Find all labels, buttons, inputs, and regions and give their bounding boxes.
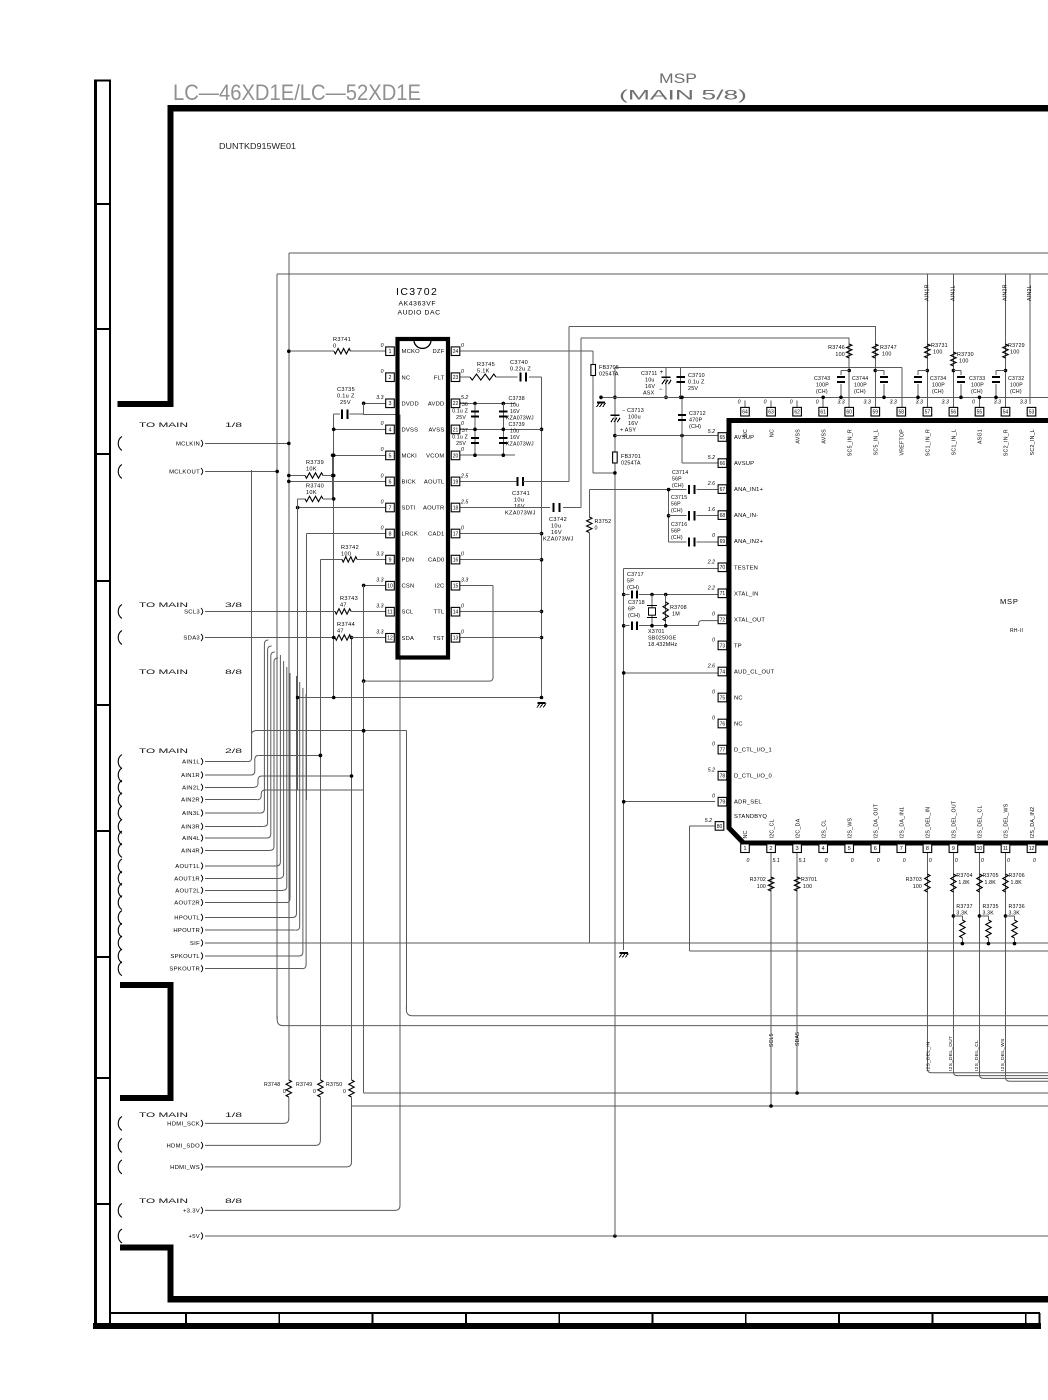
- svg-text:10K: 10K: [306, 467, 317, 473]
- svg-text:(MAIN 5/8): (MAIN 5/8): [619, 88, 747, 103]
- svg-text:(CH): (CH): [932, 389, 944, 395]
- svg-text:SPKOUTL: SPKOUTL: [170, 954, 200, 960]
- svg-text:8/8: 8/8: [225, 669, 243, 676]
- svg-text:(CH): (CH): [689, 424, 701, 430]
- svg-text:C3739: C3739: [509, 422, 525, 428]
- svg-text:19: 19: [453, 479, 459, 485]
- svg-text:I2S_DA_IN1: I2S_DA_IN1: [900, 807, 906, 839]
- svg-text:0: 0: [825, 858, 828, 864]
- svg-text:AIN2L: AIN2L: [1027, 285, 1033, 301]
- svg-text:R3701: R3701: [801, 877, 817, 883]
- svg-text:5: 5: [848, 846, 851, 852]
- svg-text:NC: NC: [402, 375, 411, 381]
- svg-text:XTAL_IN: XTAL_IN: [734, 591, 759, 597]
- svg-text:0.1u Z: 0.1u Z: [688, 380, 705, 386]
- svg-text:3.3: 3.3: [376, 630, 383, 636]
- svg-text:TESTEN: TESTEN: [734, 565, 758, 571]
- svg-text:I2S_DEL_OUT: I2S_DEL_OUT: [948, 1036, 954, 1071]
- svg-text:100: 100: [835, 352, 845, 358]
- svg-text:18: 18: [453, 505, 459, 511]
- svg-text:C3741: C3741: [512, 491, 530, 497]
- svg-text:12: 12: [387, 636, 393, 642]
- svg-text:TP: TP: [734, 643, 742, 649]
- svg-text:TO MAIN: TO MAIN: [139, 1112, 189, 1119]
- svg-text:0: 0: [461, 525, 464, 531]
- svg-text:I2C_DA: I2C_DA: [795, 818, 801, 838]
- svg-text:0: 0: [595, 526, 598, 532]
- svg-text:6: 6: [389, 479, 392, 485]
- svg-text:KZA073WJ: KZA073WJ: [506, 416, 534, 422]
- svg-text:16V: 16V: [510, 409, 520, 415]
- svg-text:1/8: 1/8: [225, 1112, 243, 1119]
- svg-text:1/8: 1/8: [225, 422, 243, 429]
- svg-text:I2S_DEL_WS: I2S_DEL_WS: [1004, 803, 1010, 838]
- svg-text:R3744: R3744: [337, 622, 355, 628]
- svg-text:− C3713: − C3713: [622, 408, 644, 414]
- svg-text:CAD1: CAD1: [428, 532, 444, 538]
- svg-text:AIN2R: AIN2R: [1003, 284, 1009, 301]
- svg-text:R3748: R3748: [264, 1082, 280, 1088]
- svg-text:3: 3: [389, 401, 392, 407]
- svg-text:0: 0: [461, 604, 464, 610]
- svg-text:70: 70: [720, 565, 726, 571]
- svg-text:LC—46XD1E/LC—52XD1E: LC—46XD1E/LC—52XD1E: [173, 80, 421, 105]
- svg-text:10u: 10u: [551, 524, 561, 530]
- svg-text:0: 0: [877, 858, 880, 864]
- svg-text:0: 0: [903, 858, 906, 864]
- svg-text:SDTI: SDTI: [402, 506, 416, 512]
- svg-text:AOUTR: AOUTR: [423, 506, 445, 512]
- svg-text:ASX: ASX: [643, 391, 655, 397]
- svg-text:−: −: [659, 387, 663, 393]
- svg-text:25V: 25V: [456, 441, 466, 447]
- svg-text:KZA073WJ: KZA073WJ: [505, 511, 536, 517]
- svg-text:MCLKOUT: MCLKOUT: [169, 469, 200, 475]
- svg-text:0: 0: [283, 1089, 286, 1095]
- svg-text:+5V: +5V: [188, 1234, 200, 1240]
- svg-text:0: 0: [712, 716, 715, 722]
- svg-text:I2S_DEL_WS: I2S_DEL_WS: [1000, 1038, 1006, 1071]
- svg-text:AK4363VF: AK4363VF: [399, 301, 437, 308]
- svg-text:C3740: C3740: [510, 360, 528, 366]
- svg-text:AVSS: AVSS: [821, 429, 827, 444]
- svg-text:SDA: SDA: [402, 636, 415, 642]
- svg-text:3.3: 3.3: [376, 395, 383, 401]
- svg-text:72: 72: [720, 617, 726, 623]
- svg-text:C3735: C3735: [337, 387, 355, 393]
- svg-text:0.1u Z: 0.1u Z: [452, 435, 468, 441]
- svg-text:SC5_IN_R: SC5_IN_R: [847, 429, 853, 456]
- svg-text:AOUT1R: AOUT1R: [174, 876, 200, 882]
- svg-text:SC1_IN_R: SC1_IN_R: [926, 429, 932, 456]
- svg-text:TTL: TTL: [433, 610, 445, 616]
- svg-text:0: 0: [712, 637, 715, 643]
- svg-text:3.3: 3.3: [864, 400, 871, 406]
- svg-text:25V: 25V: [688, 386, 698, 392]
- svg-text:63: 63: [768, 410, 774, 416]
- svg-text:66: 66: [720, 461, 726, 467]
- svg-text:0: 0: [712, 611, 715, 617]
- svg-text:1.8K: 1.8K: [958, 880, 970, 886]
- svg-text:R3750: R3750: [326, 1082, 342, 1088]
- svg-text:1.8K: 1.8K: [984, 880, 996, 886]
- svg-text:STANDBYQ: STANDBYQ: [734, 814, 767, 820]
- svg-text:57: 57: [925, 410, 931, 416]
- svg-text:59: 59: [872, 410, 878, 416]
- svg-text:0: 0: [461, 447, 464, 453]
- svg-text:I2S_DA_IN2: I2S_DA_IN2: [1030, 807, 1036, 839]
- svg-text:C3710: C3710: [688, 373, 705, 379]
- svg-text:I2S_DA_OUT: I2S_DA_OUT: [873, 803, 879, 838]
- svg-text:100: 100: [341, 552, 351, 558]
- svg-text:AIN1L: AIN1L: [950, 285, 956, 301]
- svg-text:AIN3R: AIN3R: [181, 824, 200, 830]
- svg-text:KZA073WJ: KZA073WJ: [543, 537, 574, 543]
- svg-text:R3706: R3706: [1009, 873, 1025, 879]
- svg-text:100P: 100P: [854, 383, 867, 389]
- svg-text:SB0250GE: SB0250GE: [648, 636, 677, 642]
- svg-text:10u: 10u: [510, 429, 519, 435]
- svg-text:2.5: 2.5: [460, 499, 468, 505]
- svg-text:3.3: 3.3: [890, 400, 897, 406]
- svg-text:TO MAIN: TO MAIN: [139, 669, 189, 676]
- svg-text:C3744: C3744: [852, 376, 868, 382]
- svg-text:5.2: 5.2: [461, 395, 468, 401]
- svg-text:(CH): (CH): [854, 389, 866, 395]
- svg-text:SC1_IN_L: SC1_IN_L: [952, 429, 958, 455]
- svg-text:R3737: R3737: [956, 904, 972, 910]
- svg-text:100P: 100P: [932, 383, 945, 389]
- svg-text:R3746: R3746: [828, 345, 845, 351]
- svg-text:5: 5: [389, 453, 392, 459]
- svg-text:I2S_CL: I2S_CL: [821, 819, 827, 838]
- svg-text:TO MAIN: TO MAIN: [139, 1198, 189, 1205]
- svg-text:R3704: R3704: [956, 873, 972, 879]
- svg-text:BICK: BICK: [402, 479, 417, 485]
- svg-text:16V: 16V: [628, 421, 638, 427]
- svg-text:3.3: 3.3: [1020, 400, 1027, 406]
- svg-text:78: 78: [720, 774, 726, 780]
- svg-text:69: 69: [720, 539, 726, 545]
- svg-text:0.1u Z: 0.1u Z: [337, 394, 355, 400]
- svg-text:3.3: 3.3: [376, 577, 383, 583]
- svg-text:10u: 10u: [645, 378, 655, 384]
- svg-text:73: 73: [720, 643, 726, 649]
- svg-text:22: 22: [453, 401, 459, 407]
- svg-text:R3730: R3730: [957, 352, 974, 358]
- svg-text:ADR_SEL: ADR_SEL: [734, 800, 762, 806]
- svg-text:C3733: C3733: [969, 376, 985, 382]
- svg-text:0.1u Z: 0.1u Z: [452, 409, 468, 415]
- svg-text:100: 100: [803, 884, 812, 890]
- svg-text:SC2_IN_L: SC2_IN_L: [1030, 429, 1036, 455]
- svg-text:2/8: 2/8: [225, 748, 243, 755]
- svg-text:ANA_IN1+: ANA_IN1+: [734, 487, 764, 493]
- svg-text:10u: 10u: [514, 498, 524, 504]
- svg-text:0: 0: [712, 742, 715, 748]
- svg-text:SIF: SIF: [190, 941, 200, 947]
- svg-text:60: 60: [846, 410, 852, 416]
- svg-text:R3742: R3742: [341, 545, 359, 551]
- svg-text:HPOUTR: HPOUTR: [173, 928, 200, 934]
- svg-text:MCLKIN: MCLKIN: [176, 441, 200, 447]
- svg-text:AIN1R: AIN1R: [924, 284, 930, 301]
- svg-text:(CH): (CH): [627, 585, 639, 591]
- svg-text:16V: 16V: [510, 435, 520, 441]
- svg-text:56P: 56P: [672, 477, 682, 483]
- svg-text:ANA_IN2+: ANA_IN2+: [734, 539, 764, 545]
- svg-text:1: 1: [389, 349, 392, 355]
- svg-text:5.2: 5.2: [708, 429, 715, 435]
- svg-text:3.3: 3.3: [461, 577, 468, 583]
- svg-text:5.2: 5.2: [705, 818, 712, 824]
- svg-text:0254TA: 0254TA: [621, 461, 641, 467]
- svg-text:R3735: R3735: [982, 904, 998, 910]
- svg-text:21: 21: [453, 427, 459, 433]
- svg-text:NC: NC: [734, 722, 743, 728]
- svg-text:0: 0: [747, 858, 750, 864]
- svg-text:AIN2R: AIN2R: [181, 798, 200, 804]
- svg-text:R3747: R3747: [880, 345, 897, 351]
- svg-text:0: 0: [333, 344, 336, 350]
- svg-text:FLT: FLT: [434, 375, 445, 381]
- svg-text:AUDIO DAC: AUDIO DAC: [398, 310, 441, 317]
- svg-text:65: 65: [720, 435, 726, 441]
- svg-text:14: 14: [453, 610, 459, 616]
- svg-text:AOUT2L: AOUT2L: [175, 888, 200, 894]
- svg-text:AIN4R: AIN4R: [181, 848, 200, 854]
- svg-text:VCOM: VCOM: [426, 453, 444, 459]
- svg-text:15: 15: [453, 584, 459, 590]
- svg-text:0: 0: [381, 499, 384, 505]
- svg-text:470P: 470P: [689, 418, 703, 424]
- svg-text:SC2_IN_R: SC2_IN_R: [1004, 429, 1010, 456]
- svg-text:56P: 56P: [671, 502, 681, 508]
- svg-text:I2S_DEL_CL: I2S_DEL_CL: [974, 1040, 980, 1071]
- svg-text:D_CTL_I/O_1: D_CTL_I/O_1: [734, 748, 772, 754]
- svg-text:2.2: 2.2: [707, 559, 715, 565]
- svg-text:0: 0: [381, 473, 384, 479]
- svg-text:AIN1R: AIN1R: [181, 773, 200, 779]
- svg-text:53: 53: [1029, 410, 1035, 416]
- svg-text:0: 0: [712, 533, 715, 539]
- svg-text:61: 61: [820, 410, 826, 416]
- svg-text:100: 100: [913, 884, 922, 890]
- svg-text:56P: 56P: [671, 529, 681, 535]
- svg-text:0: 0: [381, 421, 384, 427]
- svg-text:100P: 100P: [1010, 383, 1023, 389]
- svg-text:1.6: 1.6: [708, 507, 715, 513]
- svg-text:TST: TST: [433, 636, 445, 642]
- svg-text:54: 54: [1003, 410, 1009, 416]
- svg-text:10K: 10K: [306, 490, 317, 496]
- svg-text:(CH): (CH): [816, 389, 828, 395]
- svg-text:23: 23: [453, 375, 459, 381]
- svg-text:SCL5: SCL5: [769, 1033, 775, 1047]
- svg-text:DVDD: DVDD: [402, 401, 419, 407]
- svg-text:C3718: C3718: [628, 600, 645, 606]
- svg-text:0: 0: [313, 1089, 316, 1095]
- svg-text:C3743: C3743: [814, 376, 830, 382]
- svg-text:0: 0: [738, 400, 741, 406]
- svg-text:1M: 1M: [672, 612, 680, 618]
- svg-text:I2S_DEL_IN: I2S_DEL_IN: [926, 807, 932, 839]
- svg-text:NC: NC: [743, 830, 749, 838]
- svg-text:6P: 6P: [628, 607, 635, 613]
- svg-text:I2C_CL: I2C_CL: [769, 819, 775, 838]
- svg-text:3.3K: 3.3K: [1009, 911, 1021, 917]
- svg-text:0: 0: [712, 690, 715, 696]
- svg-text:SDA3: SDA3: [183, 636, 200, 642]
- svg-text:AIN2L: AIN2L: [182, 785, 200, 791]
- svg-text:R3749: R3749: [296, 1082, 312, 1088]
- svg-text:47: 47: [337, 629, 344, 635]
- svg-text:C3742: C3742: [549, 517, 567, 523]
- svg-text:0: 0: [790, 400, 793, 406]
- svg-text:0: 0: [972, 400, 975, 406]
- svg-text:3.3: 3.3: [837, 400, 844, 406]
- svg-text:D_CTL_I/O_0: D_CTL_I/O_0: [734, 774, 772, 780]
- svg-text:ANA_IN-: ANA_IN-: [734, 513, 758, 519]
- svg-text:0: 0: [381, 447, 384, 453]
- svg-text:SPKOUTR: SPKOUTR: [169, 967, 200, 973]
- svg-text:AVSS: AVSS: [795, 429, 801, 444]
- svg-text:AIN1L: AIN1L: [182, 760, 200, 766]
- svg-text:17: 17: [453, 531, 459, 537]
- svg-text:5.2: 5.2: [708, 768, 715, 774]
- svg-text:0: 0: [816, 400, 819, 406]
- svg-text:0: 0: [712, 794, 715, 800]
- svg-text:1.8K: 1.8K: [1011, 880, 1023, 886]
- svg-text:DZF: DZF: [432, 349, 444, 355]
- svg-text:5.2: 5.2: [708, 455, 715, 461]
- svg-text:77: 77: [720, 748, 726, 754]
- svg-text:CSN: CSN: [402, 584, 415, 590]
- svg-text:0: 0: [461, 369, 464, 375]
- svg-text:MCKI: MCKI: [402, 453, 418, 459]
- svg-text:3.3K: 3.3K: [956, 911, 968, 917]
- svg-text:AOUT2R: AOUT2R: [174, 901, 200, 907]
- svg-text:0: 0: [981, 858, 984, 864]
- svg-text:DVSS: DVSS: [402, 427, 419, 433]
- svg-text:56: 56: [951, 410, 957, 416]
- svg-text:R3741: R3741: [333, 337, 351, 343]
- svg-text:16V: 16V: [551, 530, 562, 536]
- svg-text:0: 0: [461, 551, 464, 557]
- svg-text:100: 100: [882, 352, 892, 358]
- svg-text:MCKO: MCKO: [402, 349, 421, 355]
- svg-text:SDA5: SDA5: [795, 1032, 801, 1046]
- svg-text:100: 100: [959, 359, 969, 365]
- svg-text:76: 76: [720, 721, 726, 727]
- svg-text:AUD_CL_OUT: AUD_CL_OUT: [734, 669, 775, 675]
- svg-text:PDN: PDN: [402, 558, 415, 564]
- svg-text:DUNTKD915WE01: DUNTKD915WE01: [219, 142, 297, 151]
- svg-text:NC: NC: [769, 429, 775, 437]
- svg-text:74: 74: [720, 669, 726, 675]
- svg-text:0: 0: [1033, 858, 1036, 864]
- svg-text:5.1K: 5.1K: [477, 369, 490, 375]
- svg-text:62: 62: [794, 410, 800, 416]
- svg-text:R3736: R3736: [1009, 904, 1025, 910]
- svg-text:79: 79: [720, 800, 726, 806]
- svg-text:64: 64: [742, 410, 748, 416]
- svg-text:100P: 100P: [971, 383, 984, 389]
- svg-text:8: 8: [926, 846, 929, 852]
- svg-text:0254TA: 0254TA: [599, 372, 619, 378]
- svg-text:0: 0: [343, 1089, 346, 1095]
- svg-text:ASG1: ASG1: [978, 429, 984, 444]
- svg-text:9: 9: [952, 846, 955, 852]
- svg-text:6: 6: [874, 846, 877, 852]
- svg-text:AVDD: AVDD: [428, 401, 445, 407]
- svg-text:KZA073WJ: KZA073WJ: [506, 442, 534, 448]
- svg-text:2: 2: [770, 846, 773, 852]
- svg-text:(CH): (CH): [971, 389, 983, 395]
- svg-text:R3702: R3702: [750, 877, 766, 883]
- svg-text:R3708: R3708: [670, 605, 687, 611]
- svg-text:67: 67: [720, 487, 726, 493]
- svg-text:+: +: [660, 369, 664, 376]
- svg-text:TO MAIN: TO MAIN: [139, 748, 189, 755]
- svg-text:I2S_DEL_OUT: I2S_DEL_OUT: [952, 800, 958, 838]
- svg-text:SCL3: SCL3: [184, 609, 200, 615]
- svg-text:0: 0: [381, 525, 384, 531]
- svg-text:XTAL_OUT: XTAL_OUT: [734, 617, 765, 623]
- svg-text:(CH): (CH): [671, 535, 683, 541]
- svg-text:12: 12: [1029, 846, 1035, 852]
- svg-text:16: 16: [453, 558, 459, 564]
- svg-text:AVSUP: AVSUP: [734, 461, 754, 467]
- svg-text:R3731: R3731: [931, 343, 948, 349]
- svg-text:4: 4: [389, 427, 392, 433]
- svg-text:25V: 25V: [456, 415, 466, 421]
- svg-text:0: 0: [381, 369, 384, 375]
- svg-text:NC: NC: [734, 696, 743, 702]
- svg-text:C3738: C3738: [509, 396, 525, 402]
- svg-text:100P: 100P: [816, 383, 829, 389]
- svg-text:0: 0: [955, 858, 958, 864]
- svg-text:18.432MHz: 18.432MHz: [648, 642, 677, 648]
- svg-text:7: 7: [900, 846, 903, 852]
- svg-text:3.3: 3.3: [942, 400, 949, 406]
- svg-text:AVSUP: AVSUP: [734, 435, 754, 441]
- svg-text:R3705: R3705: [982, 873, 998, 879]
- svg-text:HDMI_WS: HDMI_WS: [170, 1165, 200, 1171]
- svg-text:100: 100: [757, 884, 766, 890]
- svg-text:0: 0: [851, 858, 854, 864]
- svg-text:+3.3V: +3.3V: [183, 1208, 200, 1214]
- svg-text:9: 9: [389, 558, 392, 564]
- svg-text:100u: 100u: [628, 415, 641, 421]
- svg-text:R3703: R3703: [906, 877, 922, 883]
- svg-text:24: 24: [453, 349, 459, 355]
- svg-text:AIN4L: AIN4L: [182, 836, 200, 842]
- svg-text:VREFTOP: VREFTOP: [900, 429, 906, 456]
- svg-text:AVSS: AVSS: [428, 427, 444, 433]
- svg-text:0: 0: [461, 630, 464, 636]
- svg-text:(CH): (CH): [672, 483, 684, 489]
- svg-text:2.5: 2.5: [460, 473, 468, 479]
- svg-text:20: 20: [453, 453, 459, 459]
- svg-text:3.3: 3.3: [994, 400, 1001, 406]
- svg-text:2: 2: [389, 375, 392, 381]
- svg-text:8: 8: [389, 531, 392, 537]
- svg-text:3.3: 3.3: [916, 400, 923, 406]
- svg-text:2.6: 2.6: [707, 481, 715, 487]
- svg-text:3.3: 3.3: [376, 604, 383, 610]
- svg-text:10: 10: [977, 846, 983, 852]
